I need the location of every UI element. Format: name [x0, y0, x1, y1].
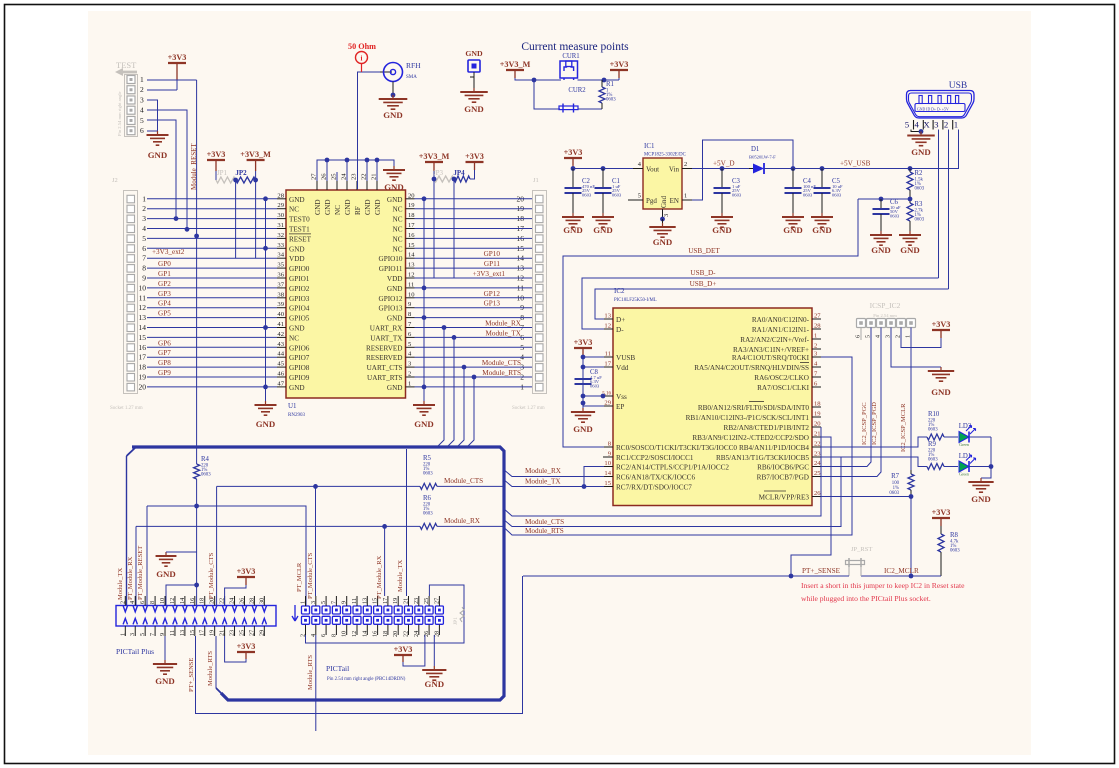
svg-text:11: 11 — [351, 598, 358, 604]
svg-text:7: 7 — [330, 601, 337, 604]
svg-text:36: 36 — [277, 272, 284, 279]
svg-text:13: 13 — [179, 630, 186, 636]
svg-text:26: 26 — [321, 173, 328, 180]
svg-text:16: 16 — [139, 343, 147, 352]
ground below PICtail Plus pin9 — [164, 636, 166, 660]
svg-text:IC2_ICSP_PGD: IC2_ICSP_PGD — [871, 402, 878, 445]
wire USB_D+ — [595, 289, 949, 319]
svg-text:25: 25 — [814, 470, 821, 477]
capacitor C5 — [821, 169, 823, 189]
svg-text:+3V3: +3V3 — [610, 60, 629, 69]
svg-text:GND: GND — [289, 325, 305, 333]
svg-text:EN: EN — [670, 197, 679, 205]
svg-text:6: 6 — [320, 634, 327, 637]
svg-text:45: 45 — [277, 361, 284, 368]
wire IC2 RC7 row to bus (Module_TX) — [503, 479, 604, 487]
ground below C5 — [811, 213, 833, 227]
svg-text:IC2_ICSP_PGC: IC2_ICSP_PGC — [861, 402, 868, 445]
svg-text:JP1: JP1 — [453, 617, 459, 625]
wire USB pin3 to USB_D+ — [948, 130, 950, 290]
svg-text:18: 18 — [408, 212, 415, 219]
svg-text:5: 5 — [142, 234, 146, 243]
svg-text:RA3/AN3/C1IN+/VREF+: RA3/AN3/C1IN+/VREF+ — [733, 346, 809, 354]
svg-text:9: 9 — [142, 274, 146, 283]
svg-text:R1: R1 — [606, 81, 614, 88]
wire Module_RESET vertical to PICtail Plus pin16 — [196, 506, 198, 606]
wire PT_Module_CTS down to pin 20 — [216, 486, 218, 605]
wire JP3 to +3V3_ext1 row — [433, 179, 435, 278]
IC2 right pins — [686, 313, 822, 502]
svg-text:0603: 0603 — [832, 193, 842, 198]
svg-text:2: 2 — [142, 204, 146, 213]
svg-text:22: 22 — [361, 173, 368, 180]
svg-text:GPIO11: GPIO11 — [379, 265, 403, 273]
svg-text:23: 23 — [229, 630, 236, 636]
svg-text:44: 44 — [277, 351, 284, 358]
svg-text:NC: NC — [393, 226, 403, 234]
U1 top pin blue stubs — [316, 172, 318, 181]
svg-text:GP7: GP7 — [158, 349, 171, 357]
svg-text:GP10: GP10 — [484, 250, 501, 258]
svg-text:Module_CTS: Module_CTS — [444, 477, 483, 485]
svg-text:19: 19 — [814, 411, 821, 418]
wire SMA shield to ground — [392, 82, 394, 96]
svg-text:20: 20 — [139, 382, 147, 391]
svg-text:GPIO0: GPIO0 — [289, 265, 310, 273]
svg-text:0603: 0603 — [915, 187, 925, 192]
svg-text:TEST: TEST — [116, 60, 137, 70]
resistor R7 — [908, 474, 914, 490]
svg-text:CUR2: CUR2 — [568, 87, 586, 94]
bus (thick) top horizontal — [132, 447, 504, 700]
svg-text:2: 2 — [140, 85, 144, 94]
svg-text:GND: GND — [384, 182, 404, 192]
svg-text:0603: 0603 — [423, 472, 433, 477]
svg-text:GP5: GP5 — [158, 310, 171, 318]
svg-text:5: 5 — [320, 601, 327, 604]
svg-text:35: 35 — [277, 262, 284, 269]
svg-text:RB7/IOCB7/PGD: RB7/IOCB7/PGD — [757, 474, 809, 482]
wire RB5 to R9 — [821, 457, 927, 467]
svg-text:28: 28 — [277, 192, 284, 199]
wire CUR1 to +3V3 — [578, 79, 605, 81]
svg-text:12: 12 — [408, 272, 415, 279]
svg-text:9: 9 — [159, 633, 166, 636]
svg-text:GND: GND — [387, 196, 403, 204]
svg-text:21: 21 — [814, 431, 821, 438]
svg-text:27: 27 — [814, 313, 821, 320]
svg-text:while plugged into the PICtail: while plugged into the PICtail Plus sock… — [801, 594, 931, 603]
svg-text:RC7/RX/DT/SDO/IOCC7: RC7/RX/DT/SDO/IOCC7 — [616, 484, 692, 492]
svg-text:RESET: RESET — [289, 235, 312, 243]
svg-text:1: 1 — [140, 75, 144, 84]
svg-text:Module_CTS: Module_CTS — [525, 518, 564, 526]
svg-text:2: 2 — [944, 120, 948, 130]
jumper JP1 PICtail loop — [306, 585, 465, 643]
svg-text:25: 25 — [423, 598, 430, 604]
svg-text:5: 5 — [638, 193, 641, 200]
svg-text:GPIO12: GPIO12 — [379, 295, 403, 303]
svg-text:9: 9 — [341, 601, 348, 604]
svg-text:Module_TX: Module_TX — [117, 568, 124, 600]
svg-text:2: 2 — [119, 601, 126, 604]
svg-text:GND: GND — [256, 419, 276, 429]
wire Module_RTS from pin19 — [215, 636, 217, 688]
svg-text:J2: J2 — [112, 177, 118, 184]
svg-text:26: 26 — [238, 598, 245, 604]
capacitor C1 — [602, 169, 604, 189]
svg-text:30: 30 — [258, 598, 265, 604]
svg-text:4: 4 — [140, 106, 144, 115]
bus exit Module_RTS chamfer bottom — [216, 688, 221, 693]
wire LED cathodes to ground — [990, 437, 992, 467]
svg-text:RB6/IOCB6/PGC: RB6/IOCB6/PGC — [757, 464, 809, 472]
svg-text:GND: GND — [156, 569, 176, 579]
ground below C1 — [592, 213, 614, 227]
svg-text:X: X — [923, 120, 930, 130]
U1 top GND bus wire — [317, 160, 394, 172]
wire USB pin2 to USB_D- — [938, 130, 940, 279]
svg-text:PIC18LF25K50-I/ML: PIC18LF25K50-I/ML — [614, 298, 657, 303]
capacitor C3 — [721, 169, 723, 189]
svg-text:33: 33 — [277, 242, 284, 249]
svg-text:GND: GND — [383, 110, 403, 120]
svg-text:NC: NC — [289, 334, 299, 342]
svg-text:2: 2 — [814, 343, 817, 350]
wire ICSP pin6 stub — [860, 328, 862, 341]
svg-text:RB4/AN11/P1D/IOCB4: RB4/AN11/P1D/IOCB4 — [739, 444, 809, 452]
svg-text:+3V3: +3V3 — [168, 53, 187, 62]
svg-text:RB0/AN12/SRI/FLT0/SDI/SDA/INT0: RB0/AN12/SRI/FLT0/SDI/SDA/INT0 — [698, 404, 810, 412]
svg-text:17: 17 — [408, 222, 415, 229]
svg-text:11: 11 — [605, 351, 611, 358]
svg-text:RA6/OSC2/CLKO: RA6/OSC2/CLKO — [754, 374, 809, 382]
ground below C6 — [870, 231, 892, 245]
svg-text:19: 19 — [139, 373, 147, 382]
svg-text:PICTail Plus: PICTail Plus — [116, 647, 154, 656]
svg-text:0603: 0603 — [612, 193, 622, 198]
svg-text:3: 3 — [129, 633, 136, 636]
capacitor C6 — [858, 198, 910, 200]
svg-text:GP4: GP4 — [158, 300, 171, 308]
svg-text:GND: GND — [387, 285, 403, 293]
svg-text:37: 37 — [277, 281, 284, 288]
svg-text:15: 15 — [139, 333, 147, 342]
svg-text:21: 21 — [371, 173, 378, 180]
svg-text:27: 27 — [311, 173, 318, 180]
svg-text:+5V_USB: +5V_USB — [840, 160, 871, 168]
svg-text:R8: R8 — [950, 532, 959, 539]
svg-text:GND: GND — [971, 494, 991, 504]
wire Module_RESET long vertical (TEST pin1 to R4) — [196, 80, 198, 464]
wire TEST pin3 to GND — [147, 100, 158, 131]
svg-text:1: 1 — [684, 193, 687, 200]
svg-text:28: 28 — [248, 598, 255, 604]
wire RB2 down to bus — [503, 427, 821, 516]
svg-text:Module_RX: Module_RX — [525, 467, 562, 475]
connector J1 (20-pin socket 1.27mm) — [512, 177, 547, 411]
svg-text:i: i — [361, 55, 363, 63]
capacitor C2 — [572, 169, 574, 189]
svg-text:1: 1 — [300, 601, 307, 604]
svg-text:GPIO13: GPIO13 — [379, 305, 403, 313]
svg-text:11: 11 — [408, 281, 414, 288]
svg-text:14: 14 — [179, 598, 186, 604]
svg-text:15: 15 — [604, 480, 611, 487]
svg-text:USB: USB — [949, 81, 967, 91]
svg-text:3: 3 — [310, 601, 317, 604]
svg-text:MCLR/VPP/RE3: MCLR/VPP/RE3 — [759, 494, 810, 502]
wire IC2 RC1 stub — [603, 456, 604, 458]
wire ICSP pin3 to ground — [891, 328, 941, 368]
svg-text:RC1/CCP2/SOSCI/IOCC1: RC1/CCP2/SOSCI/IOCC1 — [616, 454, 694, 462]
svg-text:RA2/AN2/C2IN+/Vref-: RA2/AN2/C2IN+/Vref- — [740, 336, 809, 344]
connector PICtail (2x14 header) — [292, 596, 443, 637]
svg-text:Module_TX: Module_TX — [485, 329, 521, 337]
wire ICSP pin2 to +3V3 — [901, 328, 941, 348]
svg-text:Pgd: Pgd — [646, 197, 657, 205]
svg-text:R5: R5 — [423, 455, 432, 462]
svg-text:GND: GND — [387, 384, 403, 392]
svg-text:24: 24 — [814, 460, 821, 467]
wire PT_Module_CTS to PICtail pin3 — [315, 486, 317, 596]
bus exit Module_TX chamfer — [127, 447, 137, 456]
wire USB pin1 to +5V_USB — [910, 130, 959, 169]
svg-text:GPIO2: GPIO2 — [289, 285, 310, 293]
ground below R3 — [899, 231, 921, 245]
wire SMA center to RF wire — [380, 71, 392, 73]
wire +3V3 to IC1 Vout — [572, 165, 574, 169]
svg-text:0603: 0603 — [423, 512, 433, 517]
ground below U1 right — [413, 401, 435, 415]
svg-text:GND: GND — [414, 419, 434, 429]
svg-text:RA5/AN4/C2OUT/SRNQ/HLVDIN/SS: RA5/AN4/C2OUT/SRNQ/HLVDIN/SS — [694, 364, 809, 372]
wire USB_D- — [582, 278, 939, 329]
resistor R9 — [927, 464, 944, 470]
svg-text:7: 7 — [149, 633, 156, 636]
wires U1 right pins to J1 rows — [415, 199, 533, 387]
ground below IC2 rail — [571, 408, 595, 422]
svg-text:Green: Green — [959, 442, 969, 447]
svg-text:31: 31 — [277, 222, 284, 229]
svg-text:GND: GND — [900, 245, 920, 255]
svg-text:PT+_SENSE: PT+_SENSE — [802, 567, 841, 575]
svg-text:8: 8 — [330, 634, 337, 637]
regulator IC1 body — [643, 158, 682, 209]
svg-text:5: 5 — [139, 633, 146, 636]
svg-text:Module_RX: Module_RX — [444, 517, 481, 525]
capacitor C8 on rail — [582, 378, 584, 380]
svg-text:34: 34 — [277, 252, 284, 259]
svg-text:6: 6 — [140, 126, 144, 135]
svg-text:50 Ohm: 50 Ohm — [348, 42, 376, 51]
ground below ICSP — [928, 367, 954, 381]
svg-text:18: 18 — [199, 598, 206, 604]
svg-text:RN2903: RN2903 — [288, 413, 305, 418]
wire Module_TX to PICtail pin21 — [406, 449, 408, 596]
svg-text:3: 3 — [934, 120, 939, 130]
U1 left pins 28-47 — [277, 192, 312, 392]
svg-text:4: 4 — [129, 601, 136, 604]
ground below USB — [907, 132, 935, 146]
svg-text:3: 3 — [140, 95, 144, 104]
IC1 pin Vout — [633, 168, 643, 170]
svg-text:GND: GND — [931, 387, 951, 397]
svg-text:RFH: RFH — [406, 61, 421, 70]
svg-text:RB1/AN10/C12IN3-/P1C/SCK/SCL/I: RB1/AN10/C12IN3-/P1C/SCK/SCL/INT1 — [686, 414, 810, 422]
svg-text:R7: R7 — [891, 473, 900, 480]
svg-text:29: 29 — [604, 400, 611, 407]
connector TEST (6-pin right angle header) — [115, 60, 144, 137]
svg-text:GND: GND — [344, 199, 352, 215]
svg-text:39: 39 — [277, 301, 284, 308]
svg-text:GP12: GP12 — [484, 290, 501, 298]
wire RB5 Module_CTS path — [503, 457, 841, 527]
svg-text:8: 8 — [142, 264, 146, 273]
svg-text:47: 47 — [277, 380, 284, 387]
svg-text:VDD: VDD — [289, 255, 305, 263]
svg-text:GND: GND — [573, 424, 593, 434]
svg-text:22: 22 — [403, 631, 410, 637]
wire PT_Module_RESET down — [146, 506, 148, 606]
svg-text:GP3: GP3 — [158, 290, 171, 298]
svg-text:14: 14 — [361, 631, 368, 637]
svg-text:7: 7 — [142, 254, 146, 263]
svg-text:17: 17 — [604, 361, 611, 368]
svg-text:GND: GND — [563, 225, 583, 235]
wire USB_DET — [563, 199, 858, 447]
svg-text:NC: NC — [393, 216, 403, 224]
svg-text:GPIO8: GPIO8 — [289, 364, 310, 372]
power +3V3 below PICtail — [403, 635, 425, 666]
svg-text:0603: 0603 — [582, 193, 592, 198]
svg-text:Vout: Vout — [646, 166, 659, 174]
wire TEST pin5 down to J2 pin3 — [147, 120, 176, 219]
svg-text:GND: GND — [148, 150, 168, 160]
svg-text:23: 23 — [413, 598, 420, 604]
ground below TEST header — [147, 131, 169, 145]
svg-text:42: 42 — [277, 331, 284, 338]
wire RA4 Module_RTS path — [503, 357, 852, 535]
wire TEST pin1 to Module_RESET vertical — [147, 79, 197, 81]
svg-text:+3V3: +3V3 — [465, 152, 484, 161]
IC1 pin Vin — [682, 168, 692, 170]
svg-text:PT_MCLR: PT_MCLR — [296, 562, 303, 592]
svg-text:GPIO4: GPIO4 — [289, 305, 310, 313]
svg-text:RA0/AN0/C12IN0-: RA0/AN0/C12IN0- — [752, 316, 810, 324]
svg-text:USB_D-: USB_D- — [690, 269, 716, 277]
connector J2 (20-pin socket 1.27mm) — [110, 177, 146, 411]
wire D1 to +5V_USB — [764, 168, 910, 170]
svg-text:10: 10 — [139, 283, 147, 292]
svg-text:PT_Module_CTS: PT_Module_CTS — [307, 552, 314, 599]
svg-text:28: 28 — [814, 323, 821, 330]
svg-text:Socket 1.27 mm: Socket 1.27 mm — [512, 406, 545, 411]
svg-text:NC: NC — [393, 235, 403, 243]
power +3V3 below (PICtail Plus pin21) — [225, 636, 246, 662]
wire +3V3 rail to VUSB/Vdd/Vss/EP — [582, 355, 584, 403]
svg-text:NC: NC — [393, 206, 403, 214]
svg-text:29: 29 — [258, 630, 265, 636]
svg-text:2: 2 — [408, 371, 411, 378]
svg-text:+3V3: +3V3 — [237, 642, 256, 651]
U1 top pins 27-21 — [311, 173, 383, 215]
ground below C4 — [782, 213, 804, 227]
wire Vin to D1 — [692, 168, 751, 170]
svg-text:18: 18 — [382, 631, 389, 637]
svg-text:10: 10 — [341, 631, 348, 637]
svg-text:Pin 2.54 mm right angle (PBC14: Pin 2.54 mm right angle (PBC14DRDN) — [327, 677, 406, 682]
svg-text:0603: 0603 — [732, 193, 742, 198]
svg-text:24: 24 — [229, 598, 236, 604]
svg-text:12: 12 — [139, 303, 147, 312]
wire JP2 output to +3V3_ext2 row — [255, 180, 257, 258]
svg-text:Socket 1.27 mm: Socket 1.27 mm — [110, 406, 143, 411]
svg-text:+3V3_ext2: +3V3_ext2 — [152, 248, 185, 256]
svg-text:GND: GND — [911, 147, 931, 157]
svg-text:Module_RTS: Module_RTS — [482, 369, 521, 377]
svg-text:+5V_D: +5V_D — [713, 160, 735, 168]
wire RB3 to PT+_SENSE junction — [791, 437, 831, 576]
svg-text:GND: GND — [653, 237, 673, 247]
svg-text:GND: GND — [783, 225, 803, 235]
svg-text:RB2/AN8/CTED1/P1B/INT2: RB2/AN8/CTED1/P1B/INT2 — [724, 424, 810, 432]
svg-text:USB_DET: USB_DET — [688, 247, 720, 255]
svg-text:PT_Module_CTS: PT_Module_CTS — [208, 552, 215, 599]
svg-text:ICSP_IC2: ICSP_IC2 — [870, 301, 901, 310]
svg-text:20: 20 — [392, 631, 399, 637]
svg-text:19: 19 — [392, 598, 399, 604]
svg-text:24: 24 — [413, 631, 420, 637]
svg-text:10: 10 — [408, 291, 415, 298]
svg-text:0603: 0603 — [590, 384, 600, 389]
svg-text:1: 1 — [408, 380, 411, 387]
svg-text:VUSB: VUSB — [616, 354, 635, 362]
svg-text:10: 10 — [604, 460, 611, 467]
resistor R4 — [194, 464, 200, 479]
svg-text:40: 40 — [277, 311, 284, 318]
wire RB4 to R10 — [821, 437, 927, 447]
svg-text:JP1: JP1 — [217, 169, 228, 177]
svg-text:20: 20 — [814, 421, 821, 428]
svg-text:17: 17 — [199, 630, 206, 636]
svg-text:6: 6 — [142, 244, 146, 253]
svg-text:14: 14 — [408, 252, 415, 259]
svg-text:38: 38 — [277, 291, 284, 298]
svg-text:GP6: GP6 — [158, 339, 171, 347]
resistor R8 — [940, 526, 942, 534]
wire JP4 node to +3V3_ext1 row — [453, 179, 455, 278]
resistor R6 — [136, 525, 420, 527]
svg-text:19: 19 — [408, 202, 415, 209]
svg-text:Pin 2.54 mm right angle: Pin 2.54 mm right angle — [117, 91, 122, 136]
svg-text:TEST0: TEST0 — [289, 216, 310, 224]
svg-text:GPIO1: GPIO1 — [289, 275, 310, 283]
connector ICSP_IC2 (6-pin, DNP) — [856, 301, 916, 338]
svg-text:0603: 0603 — [889, 491, 899, 496]
wire PT_Module_RX to PICtail pin17 — [384, 526, 386, 596]
U1 left GND column wire — [265, 199, 267, 405]
svg-text:MCP1825-3302E/DC: MCP1825-3302E/DC — [644, 153, 686, 158]
wire Module_RTS PICtail pin4 — [315, 635, 317, 731]
wire JP1 output to +3V3_ext2 row — [235, 180, 237, 258]
wire ICSP pin4 IC2_ICSP_PGD — [821, 328, 881, 477]
connector RFH SMA — [384, 63, 403, 82]
svg-text:RA4/C1OUT/SRQ/T0CKI: RA4/C1OUT/SRQ/T0CKI — [732, 354, 810, 362]
svg-text:+3V3_ext1: +3V3_ext1 — [473, 270, 506, 278]
svg-text:R2: R2 — [915, 170, 924, 177]
svg-text:0603: 0603 — [890, 214, 900, 219]
